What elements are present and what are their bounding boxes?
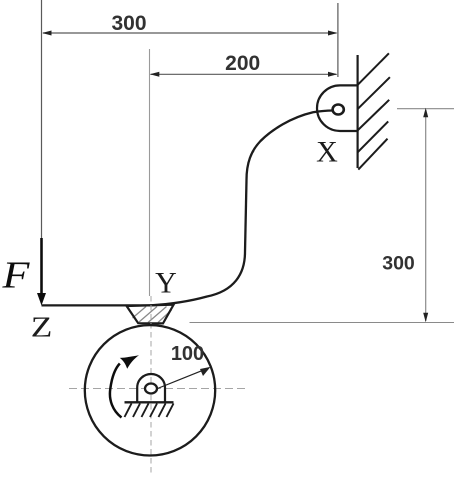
arrowhead down of right 300 dim [423, 313, 428, 323]
svg-text:200: 200 [225, 52, 260, 75]
radius arrowhead [200, 367, 211, 376]
radius arrow line [158, 368, 210, 389]
pulley X pin [333, 105, 344, 115]
force F arrow [40, 238, 43, 296]
arrowhead left of top 300 dim [42, 31, 52, 36]
arrowhead up of right 300 dim [423, 108, 428, 118]
dimension line 300 (right vertical) [425, 110, 427, 321]
horizontal centreline through wheel [69, 388, 245, 390]
extension line right (x=338) [337, 3, 339, 77]
svg-text:Y: Y [155, 267, 177, 300]
rotation arrow (moment) [110, 364, 122, 418]
rope / cable [42, 111, 334, 306]
arrowhead right of top 300 dim [328, 31, 338, 36]
extension line right bottom (y=322.5) [190, 322, 454, 324]
wall hatch 5 [358, 139, 387, 170]
extension line right mid (y=109) [397, 108, 454, 110]
wall hatch 3 [358, 100, 390, 131]
arrowhead right of 200 dim [328, 72, 338, 77]
rotation arrowhead [120, 355, 139, 369]
ground hatch [125, 404, 174, 418]
wheel disc [85, 325, 215, 455]
svg-text:Z: Z [31, 311, 53, 343]
dimension line 200 [151, 73, 337, 75]
pulley X body [317, 85, 358, 131]
ground line [125, 401, 174, 403]
vertical centreline through wheel [150, 296, 152, 474]
extension/centre line upper (x=149.5) [149, 49, 151, 296]
extension line left (x=41.5, top) [41, 0, 43, 239]
svg-text:F: F [1, 253, 30, 295]
dimension line 300 (top) [43, 32, 337, 34]
hub pin [145, 384, 157, 394]
arrowhead left of 200 dim [150, 72, 160, 77]
svg-text:X: X [316, 136, 338, 169]
wedge support Y [127, 305, 174, 324]
svg-text:100: 100 [171, 343, 204, 365]
wall hatch 4 [358, 121, 389, 152]
wall hatch 2 [358, 77, 390, 109]
wall line [357, 55, 359, 168]
svg-text:300: 300 [382, 253, 415, 275]
svg-text:300: 300 [111, 12, 146, 35]
wedge support Y hatch [133, 307, 172, 323]
wall hatch 1 [358, 53, 389, 85]
hub dome [137, 374, 165, 402]
